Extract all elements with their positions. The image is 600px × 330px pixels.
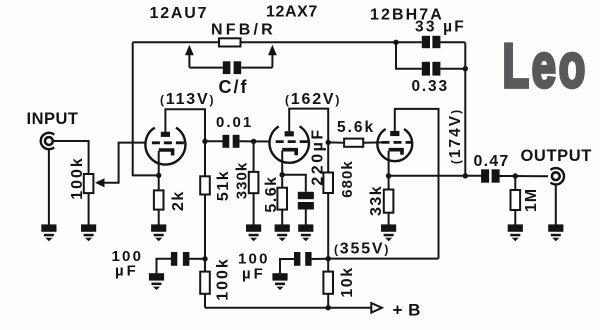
wire: 51k branch (204, 141, 206, 258)
svg-text:Leo: Leo (503, 33, 589, 101)
wire: V3 plate lead up over and down to 355V node (395, 109, 439, 259)
wire: 0.33 branch (396, 42, 466, 68)
resistor 100k (decoupling) (200, 272, 210, 294)
label 12AU7 (150, 5, 209, 22)
wire: cathode junction to 2k to ground (158, 175, 160, 224)
label C/f (219, 77, 249, 97)
node: V3 cathode junction (386, 173, 391, 178)
ground (220uF) (298, 224, 313, 241)
resistor 51k (200, 176, 210, 194)
wire: V1 cathode lead (158, 151, 160, 175)
wire: 33k branch (388, 176, 390, 225)
V2 plate (285, 131, 294, 136)
label 12BH7A (370, 7, 444, 24)
resistor 33k (384, 190, 394, 213)
svg-text:12AU7: 12AU7 (150, 5, 209, 22)
capacitor 100uF (second) (294, 252, 312, 266)
svg-text:(162V): (162V) (285, 91, 341, 108)
ground (2k) (151, 224, 166, 241)
svg-text:33k: 33k (368, 185, 385, 216)
node: 680k / 100uF / 10k / 355V junction (326, 256, 331, 261)
node: 0.33 right junction (463, 66, 468, 71)
wire: B+ rail (205, 307, 371, 309)
wire: V3 cathode lead (388, 151, 390, 176)
wire: C/f loop line (189, 67, 272, 69)
triode V2 12AX7 envelope (270, 126, 309, 162)
input jack J1 (41, 133, 54, 149)
ground (100uF first) (149, 273, 164, 290)
capacitor 100uF (first) (171, 252, 190, 266)
label 680k (339, 160, 356, 197)
wire: jack to pot (53, 141, 89, 174)
label 0.47 (474, 153, 510, 170)
ground (output jack) (548, 224, 563, 241)
svg-text:(174V): (174V) (447, 108, 464, 164)
svg-text:µF: µF (115, 263, 139, 280)
svg-text:1M: 1M (523, 188, 540, 212)
label 5.6k (grid stopper) (337, 119, 375, 136)
wire: 0.47 to output jack (499, 175, 548, 177)
label 0.33 (412, 78, 449, 95)
svg-text:C/f: C/f (219, 77, 249, 97)
label 100k (decoupling) (215, 257, 232, 301)
V3 cathode (389, 150, 402, 155)
svg-text:OUTPUT: OUTPUT (521, 147, 592, 165)
label +B (393, 301, 421, 320)
node: 51k / 100uF / 100k junction (202, 256, 207, 261)
V2 cathode (282, 150, 296, 156)
label OUTPUT (521, 147, 592, 165)
wire: V2 plate lead up and over (289, 109, 328, 143)
wire: NFB top line left segment (133, 41, 220, 43)
arrow tap right (up arrow) (268, 45, 277, 68)
svg-text:INPUT: INPUT (27, 110, 79, 128)
wire: jack ground lead (48, 149, 50, 224)
capacitor C/f (223, 61, 241, 74)
V3 grid (dashed) (382, 141, 412, 144)
label 0.01 (216, 114, 253, 131)
V2 grid (dashed) (276, 140, 309, 143)
resistor 5.6k (grid stopper) (344, 139, 363, 147)
svg-text:NFB/R: NFB/R (211, 22, 276, 39)
resistor 10k (323, 272, 333, 294)
wiper arrow (95, 143, 146, 188)
node: 0.01 / 330k / V2 grid junction (251, 139, 256, 144)
svg-text:5.6k: 5.6k (263, 175, 280, 212)
wire: V2 cathode lead (281, 151, 283, 175)
label (162V) (285, 91, 341, 108)
wire: output line (389, 175, 482, 177)
label INPUT (27, 110, 79, 128)
svg-text:(355V): (355V) (334, 241, 390, 258)
label NFB/R (211, 22, 276, 39)
svg-text:33 µF: 33 µF (415, 19, 466, 36)
wire: V1 plate lead up and over (165, 109, 205, 141)
svg-text:10k: 10k (339, 266, 356, 297)
node: V1 cathode junction (156, 173, 161, 178)
svg-text:(113V): (113V) (160, 91, 215, 108)
label 10k (339, 266, 356, 297)
wire: output jack ground lead (555, 184, 557, 224)
label 220uF (309, 127, 326, 185)
label 5.6k (cathode) (263, 175, 280, 212)
wire: 33uF branch top (396, 41, 465, 43)
label 33k (368, 185, 385, 216)
wire: 5.6k to V3 grid (363, 141, 381, 143)
wire: 680k branch (327, 142, 329, 258)
label 100k (pot) (69, 156, 86, 200)
label 33uF (415, 19, 466, 36)
label 330k (234, 162, 251, 199)
node: V1 plate junction (202, 139, 207, 144)
svg-text:100k: 100k (69, 156, 86, 200)
ground (100uF second) (272, 273, 287, 290)
node: NFB takeoff on output line (463, 173, 468, 178)
label 2k (170, 190, 187, 211)
svg-text:100k: 100k (215, 257, 232, 301)
output jack J2 (551, 168, 565, 184)
capacitor 0.01 (223, 135, 240, 148)
ground (330k) (246, 224, 261, 241)
V1 plate (161, 132, 170, 137)
svg-text:+ B: + B (393, 301, 421, 320)
wire: 0.01 row (205, 140, 270, 142)
svg-text:µF: µF (242, 266, 266, 283)
node: V2 cathode junction (280, 172, 285, 177)
wire: 10k branch (327, 259, 329, 308)
wire: 1M branch (514, 176, 516, 225)
node: 10k / rail junction (326, 305, 331, 310)
capacitor 220uF (electrolytic) (298, 192, 314, 210)
svg-text:0.01: 0.01 (216, 114, 253, 131)
ground (pot) (81, 224, 96, 241)
svg-text:0.47: 0.47 (474, 153, 510, 170)
svg-text:0.33: 0.33 (412, 78, 449, 95)
resistor 5.6k (cathode) (277, 188, 287, 210)
label 1M (523, 188, 540, 212)
resistor 330k (249, 172, 259, 193)
wire: 5.6k cathode branch (281, 175, 283, 225)
potentiometer 100k (84, 174, 94, 193)
wire: V2 plate to 5.6k resistor (328, 141, 344, 143)
node: top line / 33uF junction (393, 40, 398, 45)
ground (33k) (381, 224, 396, 241)
resistor 1M (511, 190, 521, 210)
ground (5.6k) (275, 224, 290, 241)
arrow tap left (up arrow) (185, 45, 194, 68)
wire: 355V line to V3 plate drop (328, 258, 438, 260)
V1 cathode (159, 150, 173, 156)
wire: 100uF-1 row (157, 259, 206, 274)
resistor 680k (323, 173, 333, 194)
capacitor 0.47 (481, 169, 500, 182)
wire: NFB left vertical down to cathode V1 (133, 42, 159, 175)
wire: 100k branch (204, 259, 206, 308)
label 100uF (first) (112, 248, 144, 280)
resistor 2k (154, 190, 164, 209)
arrow +B (open triangle) (371, 303, 382, 313)
label 12AX7 (266, 4, 318, 21)
wire: pot bottom to ground (88, 193, 90, 225)
label (355V) (334, 241, 390, 258)
capacitor 0.33 (422, 62, 441, 76)
label 51k (215, 170, 232, 201)
logo Leo (503, 33, 589, 101)
label (174V) rotated (447, 108, 464, 164)
svg-text:12AX7: 12AX7 (266, 4, 318, 21)
svg-text:5.6k: 5.6k (337, 119, 375, 136)
node: V2 plate junction (326, 140, 331, 145)
wire: 100uF-2 row (280, 259, 328, 274)
V1 grid (dashed) (152, 141, 185, 144)
ground (input jack) (41, 224, 56, 241)
node: 1M junction (513, 173, 518, 178)
wire: 330k branch (253, 141, 255, 224)
resistor NFB/R (219, 38, 241, 46)
wire: 220uF branch (282, 175, 306, 225)
svg-text:680k: 680k (339, 160, 356, 197)
ground (1M) (508, 224, 523, 241)
V3 plate (390, 131, 399, 136)
label (113V) (160, 91, 215, 108)
triode V1 12AU7 envelope (145, 128, 185, 165)
svg-text:2k: 2k (170, 190, 187, 211)
capacitor 33uF (422, 36, 441, 48)
svg-text:330k: 330k (234, 162, 251, 199)
wire: NFB takeoff vertical to output line (464, 42, 466, 176)
triode V3 12BH7A envelope (377, 129, 412, 161)
svg-text:51k: 51k (215, 170, 232, 201)
wire: NFB top line right segment (241, 41, 397, 43)
label 100uF (second) (238, 251, 270, 283)
